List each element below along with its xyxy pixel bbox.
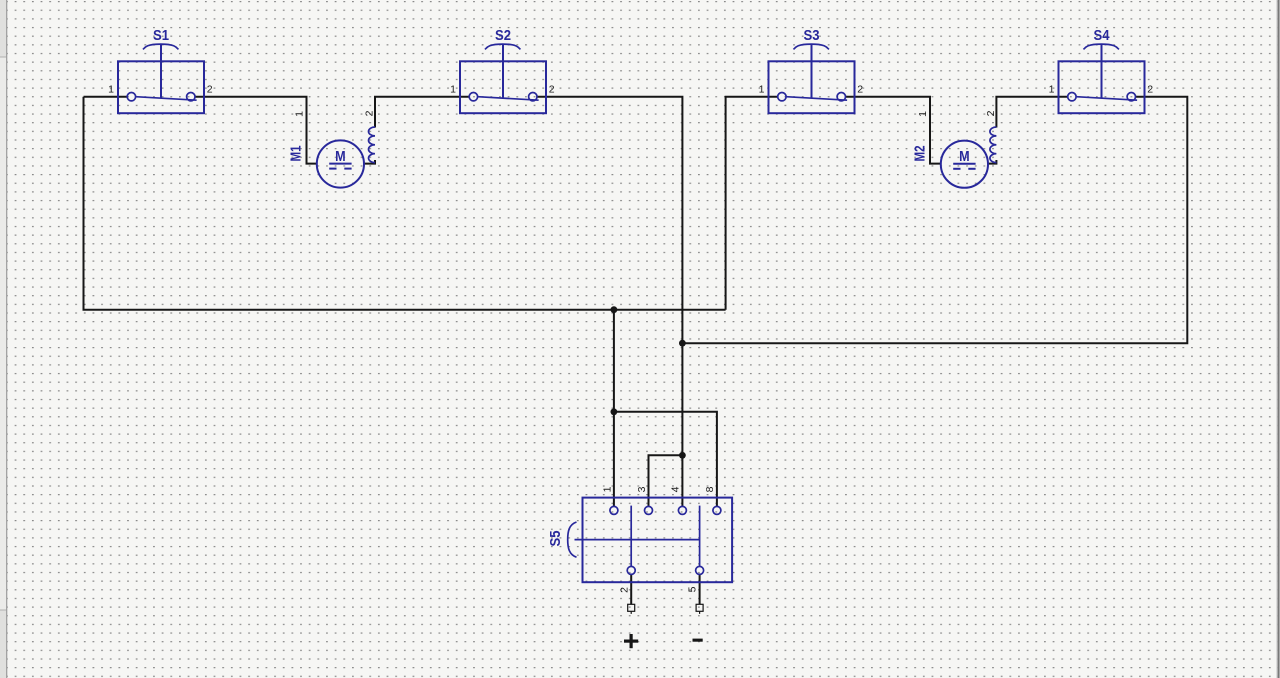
svg-text:M2: M2	[912, 146, 929, 162]
svg-text:S1: S1	[153, 27, 169, 44]
svg-text:2: 2	[207, 84, 213, 96]
svg-text:2: 2	[363, 110, 375, 116]
svg-text:1: 1	[759, 84, 765, 96]
svg-text:1: 1	[917, 111, 929, 117]
svg-text:5: 5	[687, 586, 699, 592]
svg-text:1: 1	[293, 111, 305, 117]
svg-text:4: 4	[670, 486, 682, 492]
svg-text:2: 2	[985, 110, 997, 116]
svg-text:8: 8	[704, 486, 716, 492]
svg-text:2: 2	[857, 84, 863, 96]
svg-text:S4: S4	[1094, 27, 1111, 44]
svg-text:1: 1	[602, 486, 614, 492]
svg-text:S2: S2	[495, 27, 511, 44]
svg-text:2: 2	[549, 84, 555, 96]
svg-text:1: 1	[450, 84, 456, 96]
svg-text:3: 3	[636, 486, 648, 492]
svg-text:S5: S5	[547, 531, 564, 547]
svg-text:M1: M1	[288, 146, 305, 162]
svg-text:1: 1	[1049, 84, 1055, 96]
svg-text:1: 1	[108, 84, 114, 96]
svg-text:2: 2	[618, 587, 630, 593]
svg-text:S3: S3	[804, 27, 820, 44]
svg-text:2: 2	[1147, 84, 1153, 96]
